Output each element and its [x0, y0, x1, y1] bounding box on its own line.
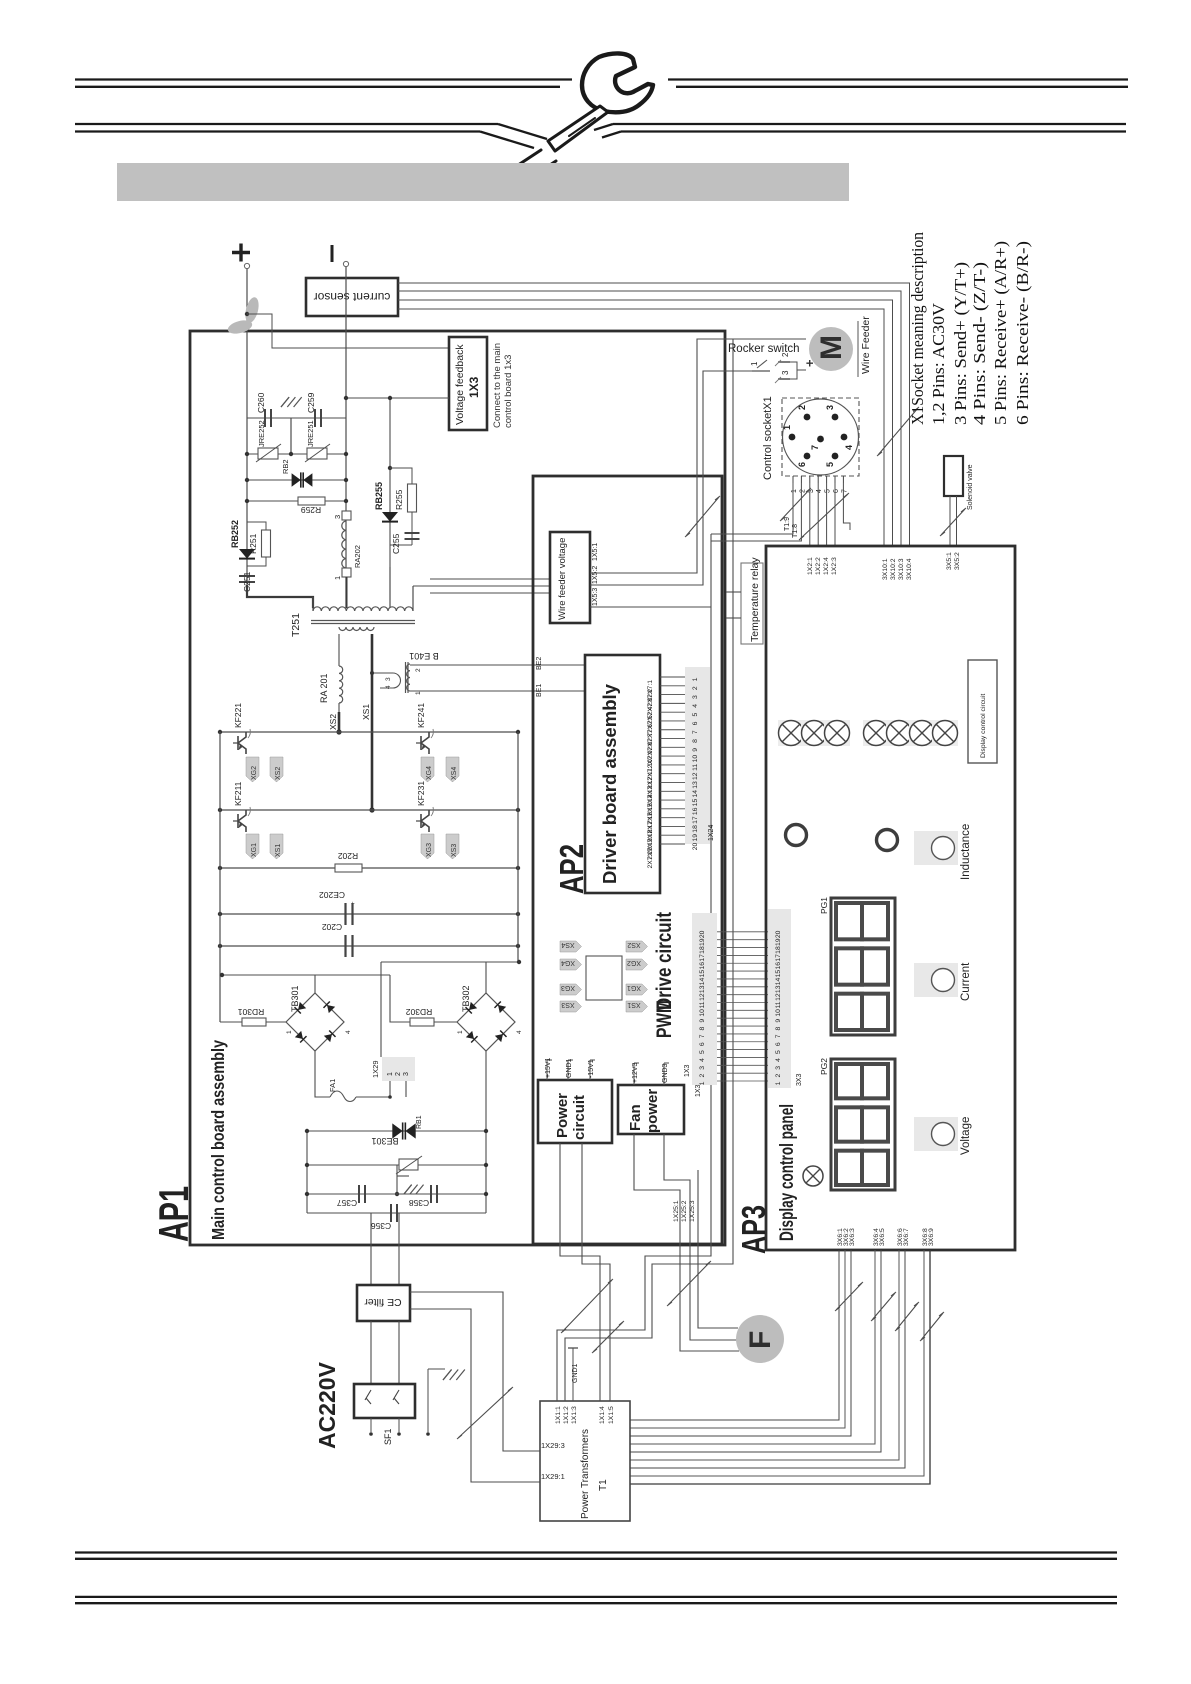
wire minus rail through current sensor	[345, 267, 347, 609]
svg-text:17: 17	[692, 816, 699, 824]
knob ring 2	[877, 830, 898, 851]
svg-text:20: 20	[699, 930, 706, 938]
button voltage	[914, 1117, 958, 1151]
svg-text:XG3: XG3	[561, 984, 575, 991]
svg-text:18: 18	[692, 825, 699, 833]
svg-text:1X2:4: 1X2:4	[823, 557, 830, 575]
svg-text:XG2: XG2	[627, 959, 641, 966]
capacitor C251	[239, 575, 255, 577]
svg-text:Solenoid valve: Solenoid valve	[967, 464, 974, 510]
svg-text:1X24: 1X24	[708, 825, 715, 841]
flag XG2	[246, 757, 259, 782]
svg-text:BE2: BE2	[536, 657, 543, 670]
svg-text:3X6:9: 3X6:9	[928, 1228, 935, 1246]
svg-text:PG2: PG2	[819, 1058, 829, 1075]
socket lead 7 hook	[843, 483, 850, 530]
svg-text:6: 6	[775, 1042, 782, 1046]
svg-text:13: 13	[699, 985, 706, 993]
svg-text:1: 1	[791, 489, 798, 493]
resistor R251 branch	[247, 522, 266, 530]
svg-text:3X3: 3X3	[796, 1073, 803, 1086]
svg-text:XS1: XS1	[275, 844, 282, 857]
svg-text:Control socketX1: Control socketX1	[762, 396, 774, 480]
gray title bar	[117, 163, 849, 201]
power transformers T1 box	[540, 1401, 630, 1521]
wires CE filter to T1	[410, 1292, 540, 1451]
svg-text:1X5:3: 1X5:3	[592, 588, 599, 606]
svg-text:Wire feeder voltage: Wire feeder voltage	[557, 538, 568, 620]
seven segment display PG2	[831, 1059, 895, 1190]
svg-text:3: 3	[825, 405, 835, 410]
svg-text:9: 9	[699, 1019, 706, 1023]
svg-text:C356: C356	[371, 1221, 392, 1231]
flag XS2	[270, 757, 283, 782]
svg-text:14: 14	[692, 790, 699, 798]
resistor JRE252	[258, 448, 278, 459]
temperature relay box	[741, 563, 763, 644]
transistor KF241	[421, 732, 429, 754]
wires power circuit into T1	[599, 1310, 601, 1401]
lamp single	[803, 1166, 823, 1186]
svg-text:19: 19	[692, 834, 699, 842]
second rule right	[613, 123, 1126, 125]
svg-text:1X1:3: 1X1:3	[571, 1406, 578, 1424]
svg-text:2: 2	[415, 668, 422, 672]
svg-text:B E401: B E401	[409, 651, 439, 661]
svg-text:15: 15	[692, 799, 699, 807]
svg-text:2: 2	[395, 1072, 402, 1076]
SF1 terminals	[370, 1418, 372, 1432]
svg-text:1X3: 1X3	[467, 376, 481, 398]
bottom double rule 1	[75, 1551, 1117, 1553]
svg-text:R259: R259	[301, 505, 322, 515]
flag XS4 pwm	[560, 941, 582, 952]
svg-text:1: 1	[775, 1081, 782, 1085]
svg-text:JRE251: JRE251	[306, 420, 315, 447]
display control circuit box	[968, 660, 997, 763]
svg-text:XG3: XG3	[426, 843, 433, 857]
T1 ground pin GND1	[572, 1348, 574, 1401]
svg-text:RB2: RB2	[281, 459, 290, 474]
svg-text:Current: Current	[960, 962, 972, 1001]
capacitor C358	[430, 1185, 432, 1203]
svg-text:4: 4	[775, 1058, 782, 1062]
svg-text:16: 16	[775, 962, 782, 970]
svg-text:1X25:1: 1X25:1	[673, 1200, 680, 1222]
svg-text:10: 10	[692, 755, 699, 763]
svg-text:5: 5	[692, 713, 699, 717]
solenoid valve	[944, 456, 963, 496]
svg-text:Inductance: Inductance	[960, 824, 972, 880]
flag XG2 pwm	[626, 959, 648, 970]
chassis ground hook	[396, 1165, 398, 1194]
wire drop RD302 feed	[390, 975, 410, 1022]
svg-text:FA1: FA1	[328, 1079, 337, 1092]
svg-text:XS1: XS1	[627, 1001, 640, 1008]
svg-text:+: +	[802, 359, 817, 367]
svg-text:1,2 Pins: AC30V: 1,2 Pins: AC30V	[929, 302, 948, 425]
svg-text:XG1: XG1	[627, 984, 641, 991]
button inductance	[914, 831, 958, 865]
svg-text:Power Transformers: Power Transformers	[580, 1429, 591, 1519]
svg-text:5 Pins: Receive+ (A/R+): 5 Pins: Receive+ (A/R+)	[991, 241, 1010, 425]
connector 1X24	[685, 667, 710, 844]
top double rule left	[75, 78, 572, 80]
inductor RA202 with pins	[342, 511, 351, 520]
cable slash on sensor wires	[877, 407, 919, 456]
corridor wire down to transformer	[645, 534, 711, 1310]
solenoid valve wires	[949, 496, 951, 546]
flag XS1 pwm	[626, 1001, 648, 1012]
svg-text:XG4: XG4	[426, 766, 433, 780]
svg-text:3: 3	[699, 1066, 706, 1070]
flag XG1	[246, 834, 259, 859]
svg-text:3: 3	[385, 677, 392, 681]
wire bridge bus row3 R202	[220, 867, 518, 869]
svg-text:BE301: BE301	[371, 1136, 398, 1146]
wire rung R259	[247, 500, 346, 502]
wire rung varistor	[307, 1164, 486, 1166]
svg-text:KF211: KF211	[233, 781, 243, 806]
svg-text:-15V1: -15V1	[588, 1059, 595, 1078]
svg-text:1X25:3: 1X25:3	[689, 1200, 696, 1222]
knob ring 1	[786, 825, 807, 846]
capacitor C260	[264, 409, 266, 427]
svg-text:GND1: GND1	[566, 1058, 573, 1078]
svg-text:C358: C358	[409, 1198, 430, 1208]
svg-text:1X3: 1X3	[695, 1084, 702, 1097]
suppressor BE301 RB1	[392, 1123, 402, 1138]
svg-text:C357: C357	[337, 1198, 358, 1208]
TVS RB2	[292, 473, 301, 487]
svg-text:12: 12	[699, 993, 706, 1001]
flag XS1	[270, 834, 283, 859]
svg-text:RB252: RB252	[230, 520, 240, 548]
svg-text:1X2:3: 1X2:3	[831, 557, 838, 575]
svg-text:2: 2	[775, 1074, 782, 1078]
svg-text:M: M	[815, 335, 848, 360]
svg-text:3X10:2: 3X10:2	[890, 558, 897, 580]
wire bridge bus row1	[220, 731, 518, 733]
power circuit box	[538, 1080, 612, 1143]
svg-text:1X29:1: 1X29:1	[541, 1472, 565, 1481]
wire feeder motor M	[809, 327, 853, 371]
capacitor C202	[344, 935, 346, 957]
svg-text:1X29:3: 1X29:3	[541, 1441, 565, 1450]
svg-text:RB1: RB1	[416, 1115, 423, 1129]
svg-text:5: 5	[825, 489, 832, 493]
wire drops to CE filter	[370, 1213, 372, 1285]
svg-text:3: 3	[692, 695, 699, 699]
svg-text:C259: C259	[306, 392, 316, 413]
svg-text:20: 20	[775, 930, 782, 938]
svg-text:AP3: AP3	[735, 1205, 772, 1254]
svg-text:8: 8	[692, 739, 699, 743]
svg-text:+: +	[351, 901, 357, 905]
svg-text:CE202: CE202	[319, 890, 345, 900]
svg-text:1X29: 1X29	[371, 1060, 380, 1078]
svg-text:BE1: BE1	[536, 684, 543, 697]
svg-text:3X10:4: 3X10:4	[906, 558, 913, 580]
svg-text:XG4: XG4	[561, 959, 575, 966]
svg-text:17: 17	[699, 954, 706, 962]
svg-text:20: 20	[692, 843, 699, 851]
svg-text:T251: T251	[290, 613, 302, 637]
svg-text:Display control panel: Display control panel	[777, 1104, 798, 1241]
svg-text:5: 5	[825, 462, 835, 467]
flag XG4	[421, 757, 434, 782]
fan power box	[618, 1085, 684, 1134]
svg-text:19: 19	[699, 938, 706, 946]
svg-text:1: 1	[415, 691, 422, 695]
svg-text:XS2: XS2	[328, 714, 338, 730]
diode RB252	[239, 549, 255, 559]
wires corridor into T1	[557, 1310, 645, 1401]
svg-text:RA202: RA202	[353, 545, 362, 568]
svg-text:JRE252: JRE252	[257, 420, 266, 447]
svg-text:7: 7	[692, 730, 699, 734]
svg-text:11: 11	[699, 1001, 706, 1008]
svg-text:1X1:5: 1X1:5	[608, 1406, 615, 1424]
flag XS3	[446, 834, 459, 859]
svg-text:control board 1x3: control board 1x3	[503, 355, 514, 428]
shunt blobs	[243, 296, 261, 324]
svg-text:circuit: circuit	[571, 1095, 588, 1140]
svg-text:12: 12	[692, 772, 699, 780]
svg-text:11: 11	[692, 764, 699, 771]
wire bridge bus row2	[220, 809, 518, 811]
wire bridge left rail	[219, 732, 221, 1022]
wire 1X5-1 to wire feeder M	[590, 339, 806, 573]
svg-text:1: 1	[692, 677, 699, 681]
svg-text:3: 3	[333, 515, 342, 519]
svg-text:4: 4	[844, 445, 854, 450]
svg-text:RB255: RB255	[374, 482, 384, 510]
svg-text:1: 1	[782, 425, 792, 430]
earth terminal	[427, 1369, 429, 1432]
svg-text:4: 4	[699, 1058, 706, 1062]
resistor R202	[335, 864, 362, 872]
wire fan leads to F	[698, 1244, 738, 1328]
bottom double rule 2	[75, 1596, 1117, 1598]
svg-text:XS1: XS1	[361, 704, 371, 720]
svg-text:R251: R251	[248, 533, 258, 554]
second rule left	[75, 123, 498, 125]
AP3 display panel box	[766, 546, 1015, 1250]
svg-text:Display control circuit: Display control circuit	[980, 694, 987, 758]
wire rung C357 C358	[307, 1193, 486, 1195]
svg-text:6: 6	[692, 721, 699, 725]
wire fan power down to 1X25	[634, 1134, 680, 1244]
connector 3X3 strip	[768, 909, 791, 1088]
svg-text:XS4: XS4	[451, 767, 458, 780]
svg-text:17: 17	[775, 954, 782, 962]
svg-text:+15V1: +15V1	[545, 1057, 552, 1078]
svg-text:2: 2	[692, 686, 699, 690]
socket leads T1-9 T1-8	[711, 483, 793, 534]
button current	[914, 963, 958, 997]
svg-text:Temperature relay: Temperature relay	[749, 557, 761, 642]
corridor duct line	[652, 339, 733, 1318]
svg-text:3: 3	[781, 370, 790, 375]
socket leads to AP3	[809, 483, 811, 546]
svg-text:1: 1	[750, 361, 759, 366]
svg-text:1X1:1: 1X1:1	[555, 1406, 562, 1424]
svg-text:2: 2	[797, 405, 807, 410]
svg-text:AC220V: AC220V	[314, 1361, 340, 1449]
svg-text:1: 1	[457, 1030, 464, 1034]
wire fuse FA1 run	[315, 1051, 330, 1097]
svg-text:1X5:1: 1X5:1	[592, 543, 599, 561]
svg-text:XS2: XS2	[275, 767, 282, 780]
svg-text:2: 2	[799, 489, 806, 493]
svg-text:C202: C202	[322, 922, 343, 932]
svg-text:1X1:2: 1X1:2	[563, 1406, 570, 1424]
wire 1X5-3 corridor down	[590, 606, 711, 608]
wire rung BE301	[307, 1130, 486, 1132]
flag XS2 pwm	[626, 941, 648, 952]
svg-text:+12V3: +12V3	[632, 1062, 639, 1083]
svg-text:T1:9: T1:9	[784, 517, 791, 531]
svg-text:3X6:3: 3X6:3	[849, 1228, 856, 1246]
svg-text:18: 18	[699, 946, 706, 954]
cable slash corridor top	[685, 496, 720, 537]
cable slashes socket leads	[780, 488, 811, 521]
svg-text:16: 16	[692, 807, 699, 815]
svg-text:current sensor: current sensor	[314, 290, 391, 304]
svg-text:KF241: KF241	[416, 703, 426, 728]
flag XG3 pwm	[560, 984, 582, 995]
svg-text:T1: T1	[598, 1479, 609, 1491]
capacitor C356	[390, 1204, 392, 1222]
wire feeder bracket	[857, 321, 859, 377]
wire 1X5-2 to rocker switch	[590, 371, 752, 585]
svg-text:KF221: KF221	[233, 703, 243, 728]
svg-text:1X3: 1X3	[684, 1064, 691, 1077]
svg-text:1X2:2: 1X2:2	[815, 557, 822, 575]
svg-text:C255: C255	[391, 533, 401, 554]
wire drop to 1X29	[380, 962, 382, 1057]
svg-text:6: 6	[797, 462, 807, 467]
top double rule right	[668, 78, 1128, 80]
wire rail to RB255	[389, 398, 391, 567]
wire lower feed right	[381, 961, 519, 963]
svg-text:TB301: TB301	[290, 985, 300, 1012]
wire loops AP3 to transformer T1	[630, 1250, 839, 1420]
resistor RD302	[410, 1018, 434, 1026]
svg-text:9: 9	[692, 748, 699, 752]
svg-text:Wire Feeder: Wire Feeder	[860, 316, 872, 374]
svg-text:2: 2	[699, 1074, 706, 1078]
control socket pin leads	[792, 476, 794, 483]
svg-text:3X10:3: 3X10:3	[898, 558, 905, 580]
svg-text:PG1: PG1	[819, 897, 829, 914]
svg-text:14: 14	[775, 977, 782, 985]
svg-text:14: 14	[699, 977, 706, 985]
current sensor output wires	[398, 283, 910, 546]
voltage feedback box 1X3	[449, 337, 487, 430]
svg-text:XS2: XS2	[627, 941, 640, 948]
svg-text:T1:8: T1:8	[792, 524, 799, 538]
cable slash power leads	[561, 1279, 613, 1333]
svg-text:TB302: TB302	[461, 985, 471, 1012]
svg-text:Driver board assembly: Driver board assembly	[599, 683, 620, 884]
wire XS1 leg thick	[371, 634, 374, 810]
wire block left rail	[306, 1131, 308, 1213]
svg-text:19: 19	[775, 938, 782, 946]
wire branch from plus to voltage feedback	[247, 314, 449, 348]
capacitor C259	[314, 409, 316, 427]
svg-text:3X6:7: 3X6:7	[903, 1228, 910, 1246]
svg-text:CE filter: CE filter	[364, 1296, 402, 1308]
svg-text:1X2:1: 1X2:1	[807, 557, 814, 575]
wire feeder voltage box	[550, 532, 590, 623]
AP2 inverter box	[533, 476, 722, 1244]
svg-text:4: 4	[816, 489, 823, 493]
seven segment display PG1	[831, 898, 895, 1035]
svg-text:XS4: XS4	[561, 941, 574, 948]
svg-text:X1Socket meaning description: X1Socket meaning description	[908, 232, 927, 425]
svg-text:3: 3	[403, 1072, 410, 1076]
cable slash solenoid	[940, 508, 966, 536]
svg-text:13: 13	[775, 985, 782, 993]
svg-text:16: 16	[699, 962, 706, 970]
svg-text:2X7:20: 2X7:20	[647, 847, 654, 869]
PWM ic	[586, 956, 622, 1000]
capacitor C255	[405, 532, 420, 534]
bridge rectifier TB302	[457, 993, 515, 1051]
wire BE2 to driver board	[410, 664, 585, 666]
power circuit pins	[546, 1060, 548, 1080]
resistor R255 branch	[390, 468, 412, 484]
svg-text:15: 15	[775, 970, 782, 978]
wire BE1 to driver board	[410, 690, 585, 692]
capacitor CE202	[344, 903, 346, 925]
wire rung C356	[307, 1212, 486, 1214]
cable slash T1 wires	[592, 1321, 624, 1353]
svg-text:3 Pins: Send+ (Y/T+): 3 Pins: Send+ (Y/T+)	[951, 262, 970, 425]
svg-text:18: 18	[775, 946, 782, 954]
wire lower feed left	[222, 974, 390, 976]
svg-text:3: 3	[775, 1066, 782, 1070]
svg-text:3X6:5: 3X6:5	[879, 1228, 886, 1246]
svg-text:SF1: SF1	[383, 1428, 393, 1445]
svg-text:4: 4	[692, 704, 699, 708]
wire rung RB2	[247, 479, 346, 481]
varistor RV	[399, 1159, 418, 1170]
current sensor box	[306, 278, 398, 316]
fan power pins	[633, 1063, 635, 1085]
svg-text:11: 11	[775, 1001, 782, 1008]
flag XS4	[446, 757, 459, 782]
temperature relay stub wires	[726, 591, 741, 593]
flag XG1 pwm	[626, 984, 648, 995]
flag XG4 pwm	[560, 959, 582, 970]
svg-text:7: 7	[775, 1034, 782, 1038]
svg-text:6: 6	[699, 1042, 706, 1046]
transistor KF231	[421, 810, 429, 832]
wire power circuit down	[560, 1143, 600, 1310]
svg-text:R255: R255	[394, 489, 404, 510]
svg-text:GND3: GND3	[662, 1063, 669, 1083]
wire 1X29 pin stubs	[389, 1081, 391, 1097]
wire bottom bus to T251	[247, 585, 313, 608]
svg-text:Connect to the main: Connect to the main	[492, 343, 503, 428]
svg-text:1: 1	[387, 1072, 394, 1076]
svg-text:RA 201: RA 201	[319, 673, 329, 703]
wire RB255 to transformer	[389, 567, 391, 608]
flag XG3	[421, 834, 434, 859]
